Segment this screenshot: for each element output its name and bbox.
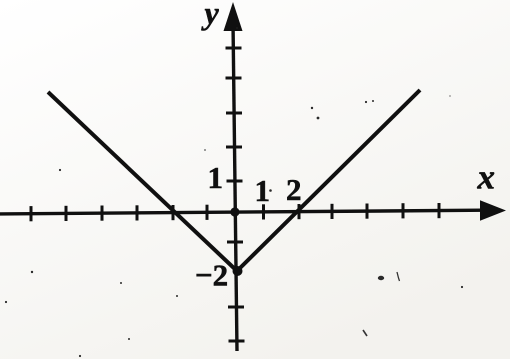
- svg-text:2: 2: [286, 172, 302, 207]
- svg-text:−2: −2: [195, 258, 228, 293]
- svg-text:1: 1: [255, 173, 271, 208]
- svg-text:1: 1: [208, 160, 224, 195]
- svg-text:x: x: [477, 158, 496, 197]
